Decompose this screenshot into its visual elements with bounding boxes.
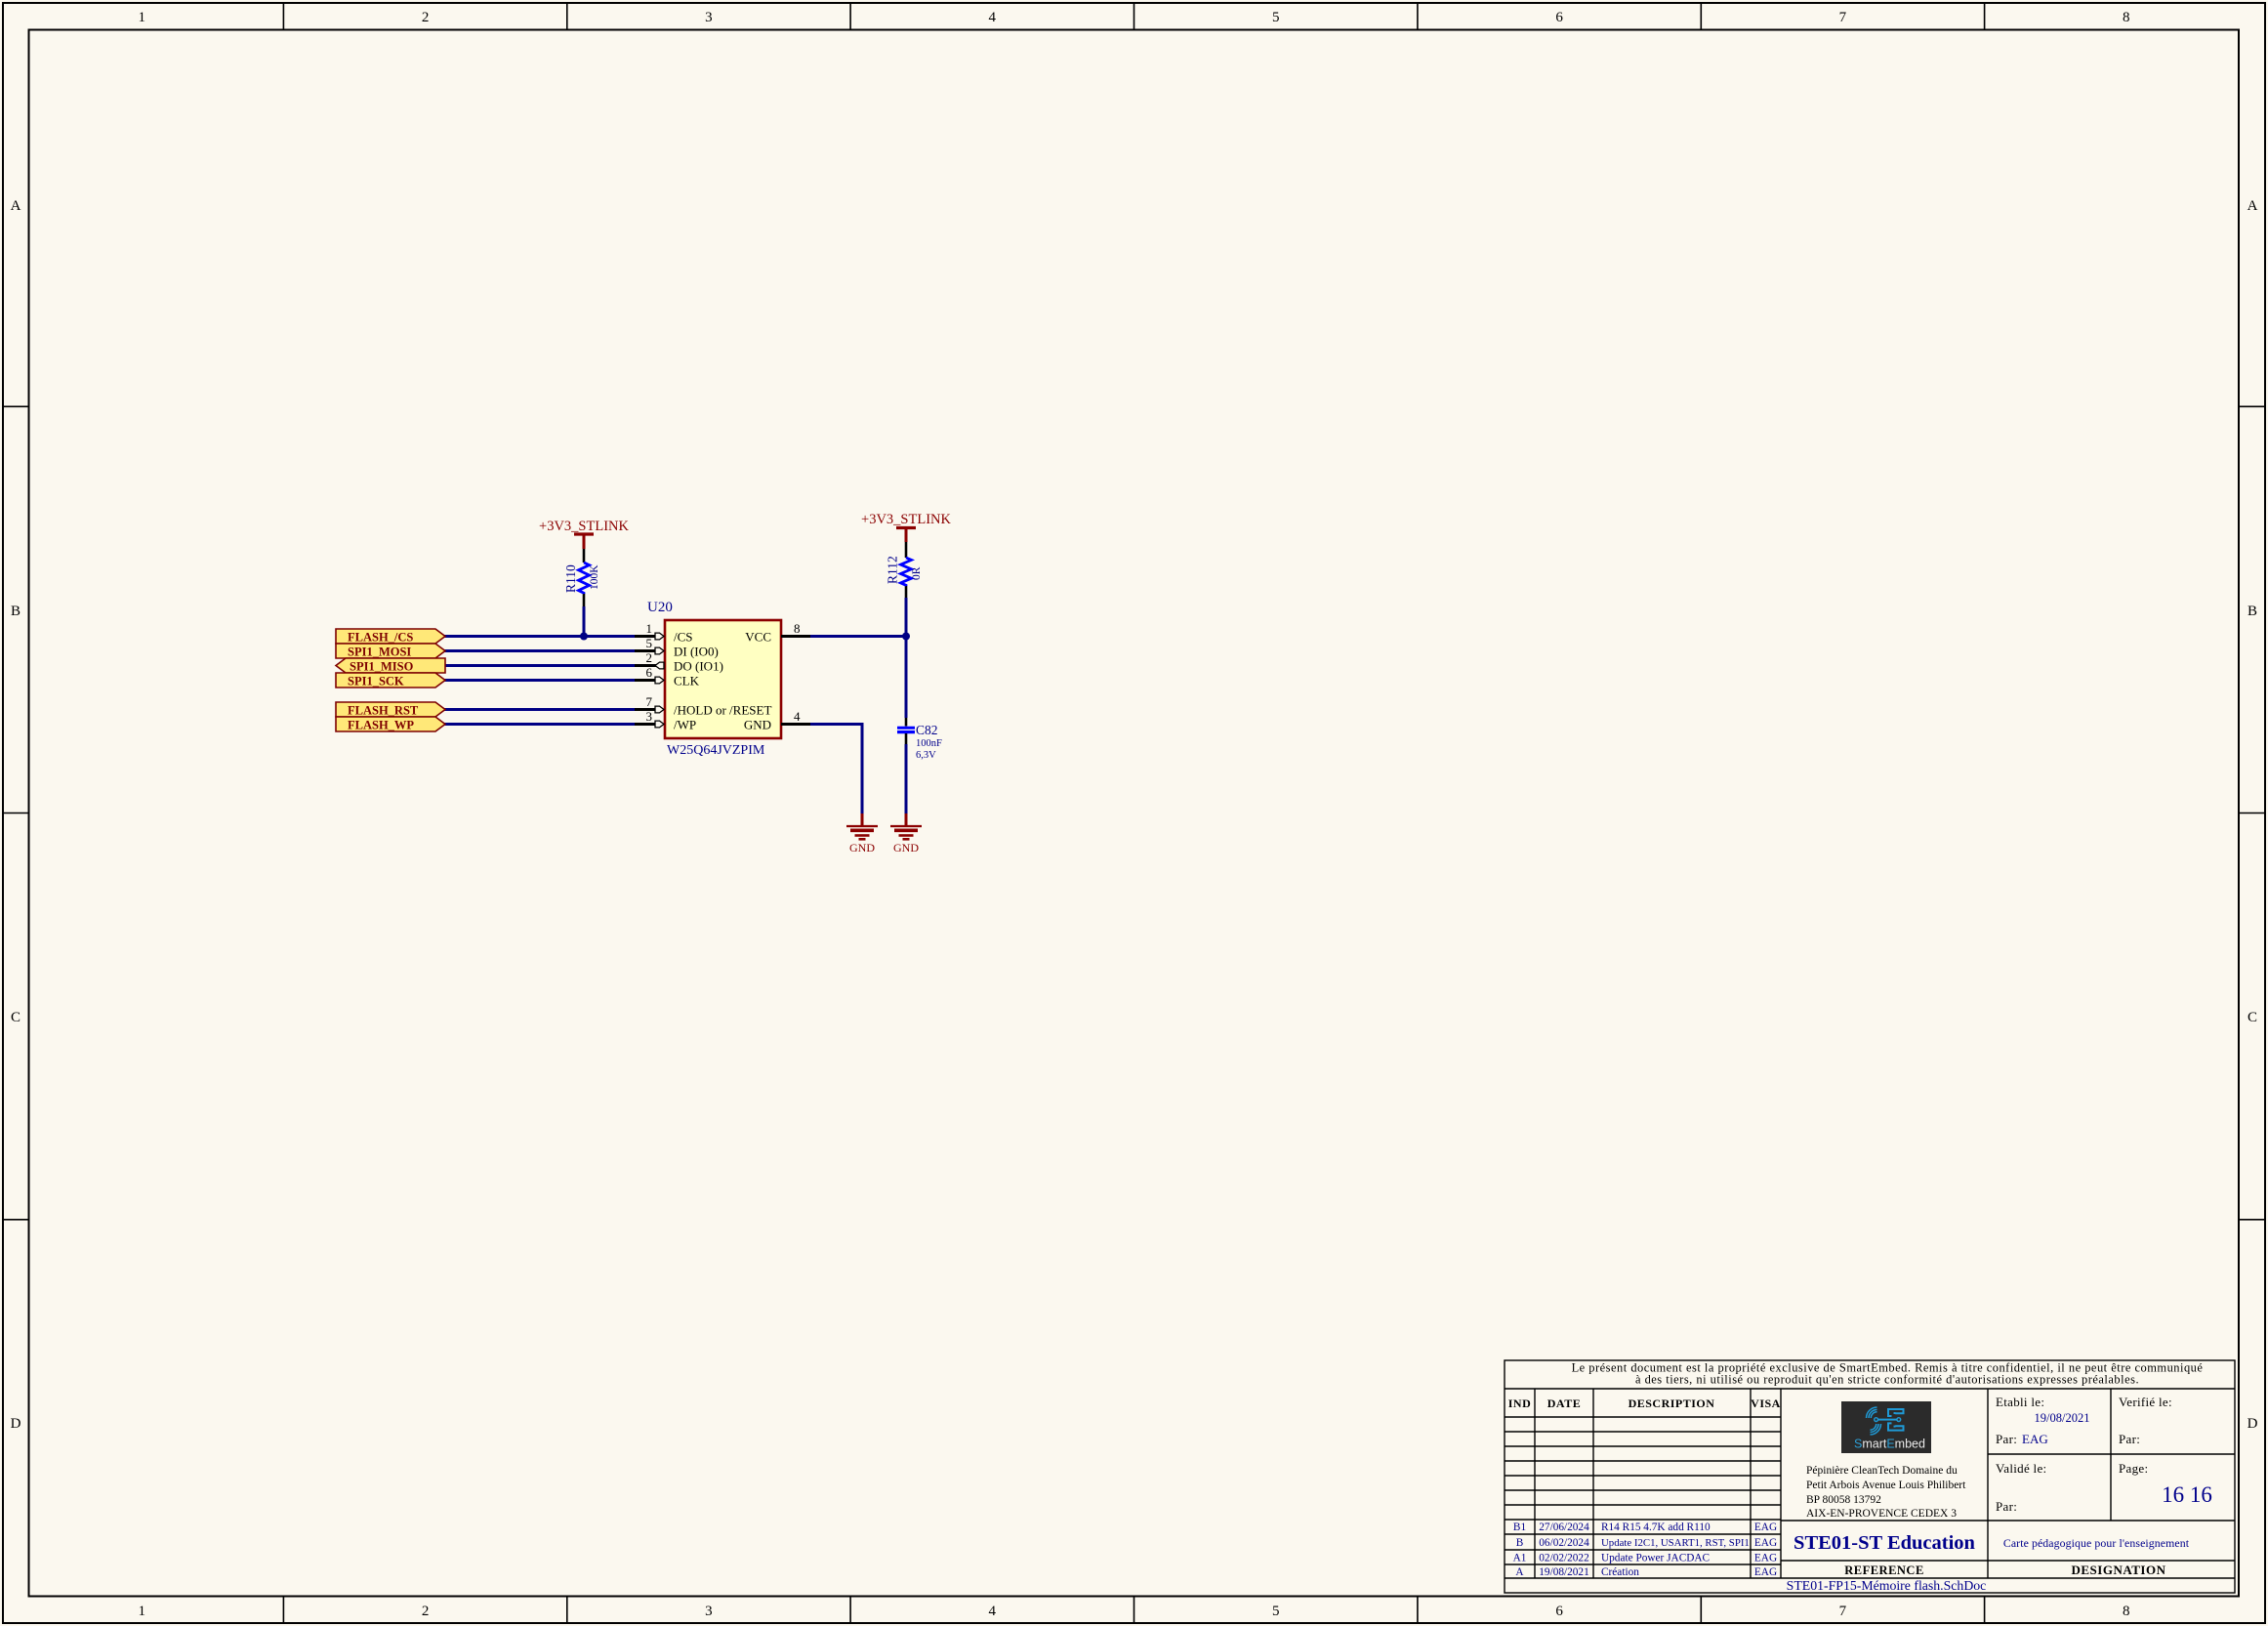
- svg-text:DESIGNATION: DESIGNATION: [2071, 1563, 2165, 1577]
- svg-text:Par:: Par:: [1996, 1432, 2017, 1446]
- svg-text:A: A: [2247, 198, 2258, 214]
- svg-text:/WP: /WP: [674, 718, 696, 732]
- pin 4 GND: [744, 709, 810, 732]
- svg-text:16 16: 16 16: [2162, 1482, 2212, 1507]
- svg-text:5: 5: [1272, 10, 1280, 25]
- pin 8 VCC: [745, 621, 810, 645]
- svg-text:AIX-EN-PROVENCE CEDEX 3: AIX-EN-PROVENCE CEDEX 3: [1806, 1508, 1957, 1520]
- svg-text:STE01-FP15-Mémoire flash.SchDo: STE01-FP15-Mémoire flash.SchDoc: [1787, 1578, 1987, 1593]
- svg-text:Petit Arbois Avenue Louis Phil: Petit Arbois Avenue Louis Philibert: [1806, 1480, 1966, 1491]
- svg-text:CLK: CLK: [674, 674, 700, 688]
- svg-text:3: 3: [705, 1604, 713, 1619]
- svg-text:A1: A1: [1513, 1553, 1527, 1564]
- svg-text:A: A: [1515, 1566, 1524, 1578]
- svg-text:A: A: [11, 198, 21, 214]
- svg-text:U20: U20: [647, 600, 673, 615]
- port SPI1_MISO: [336, 658, 445, 674]
- port FLASH_RST: [336, 702, 445, 718]
- svg-text:SPI1_MOSI: SPI1_MOSI: [348, 646, 411, 659]
- svg-text:FLASH_RST: FLASH_RST: [348, 704, 419, 718]
- junction node FLASH_/CS at R110: [580, 633, 588, 641]
- svg-text:3: 3: [705, 10, 713, 25]
- svg-text:6,3V: 6,3V: [916, 750, 936, 761]
- svg-text:B1: B1: [1513, 1522, 1526, 1533]
- pin 5 DI: [635, 636, 719, 659]
- svg-text:R112: R112: [886, 556, 900, 584]
- svg-text:7: 7: [1839, 10, 1847, 25]
- svg-text:EAG: EAG: [1754, 1566, 1777, 1578]
- capacitor C82: [897, 718, 915, 744]
- svg-text:R110: R110: [563, 564, 578, 593]
- power +3V3_STLINK left: [539, 519, 629, 549]
- svg-text:Update Power JACDAC: Update Power JACDAC: [1601, 1553, 1710, 1564]
- svg-text:SmartEmbed: SmartEmbed: [1831, 1438, 1943, 1451]
- svg-text:19/08/2021: 19/08/2021: [1539, 1566, 1588, 1578]
- svg-text:DATE: DATE: [1547, 1397, 1581, 1410]
- svg-text:0R: 0R: [911, 566, 923, 580]
- wire C82 to ground: [905, 744, 908, 813]
- port SPI1_MOSI: [336, 644, 445, 659]
- junction node VCC at R112: [902, 633, 910, 641]
- svg-text:W25Q64JVZPIM: W25Q64JVZPIM: [667, 743, 765, 758]
- svg-text:B: B: [11, 604, 21, 619]
- svg-text:+3V3_STLINK: +3V3_STLINK: [539, 519, 629, 534]
- svg-text:DESCRIPTION: DESCRIPTION: [1629, 1397, 1715, 1410]
- svg-text:/CS: /CS: [674, 630, 693, 645]
- svg-text:27/06/2024: 27/06/2024: [1539, 1522, 1589, 1533]
- svg-text:C: C: [11, 1010, 21, 1025]
- svg-text:Verifié le:: Verifié le:: [2119, 1395, 2172, 1409]
- svg-text:BP 80058 13792: BP 80058 13792: [1806, 1494, 1881, 1506]
- designator C82: [916, 723, 938, 737]
- svg-text:à des tiers, ni utilisé ou rep: à des tiers, ni utilisé ou reproduit qu'…: [1635, 1373, 2139, 1387]
- svg-text:D: D: [2247, 1416, 2258, 1432]
- pin 3 /WP: [635, 709, 696, 732]
- wire VCC pin8 to R112 branch: [810, 635, 908, 638]
- svg-text:R14 R15 4.7K add R110: R14 R15 4.7K add R110: [1601, 1522, 1711, 1533]
- svg-text:4: 4: [989, 1604, 997, 1619]
- pin 1 /CS: [635, 621, 693, 645]
- svg-text:100nF: 100nF: [916, 738, 942, 749]
- svg-text:Update I2C1, USART1, RST, SPI1: Update I2C1, USART1, RST, SPI1: [1601, 1537, 1750, 1549]
- svg-text:Par:: Par:: [2119, 1432, 2140, 1446]
- port SPI1_SCK: [336, 673, 445, 688]
- svg-text:5: 5: [1272, 1604, 1280, 1619]
- value 6,3V: [916, 750, 936, 761]
- pin 7 /HOLD: [635, 694, 771, 718]
- svg-text:Pépinière CleanTech Domaine du: Pépinière CleanTech Domaine du: [1806, 1465, 1958, 1477]
- svg-text:Page:: Page:: [2119, 1461, 2148, 1476]
- svg-text:GND: GND: [744, 718, 771, 732]
- svg-text:B: B: [2247, 604, 2257, 619]
- svg-text:FLASH_WP: FLASH_WP: [348, 719, 414, 732]
- svg-text:EAG: EAG: [1754, 1553, 1777, 1564]
- svg-text:8: 8: [2123, 10, 2130, 25]
- svg-text:EAG: EAG: [1754, 1522, 1777, 1533]
- svg-text:Etabli le:: Etabli le:: [1996, 1395, 2044, 1409]
- svg-text:Validé le:: Validé le:: [1996, 1461, 2046, 1476]
- designator U20: [647, 600, 673, 615]
- svg-text:EAG: EAG: [1754, 1537, 1777, 1549]
- svg-text:REFERENCE: REFERENCE: [1844, 1563, 1924, 1577]
- svg-text:4: 4: [989, 10, 997, 25]
- svg-text:VCC: VCC: [745, 630, 771, 645]
- value 100nF: [916, 738, 942, 749]
- svg-text:VISA: VISA: [1751, 1397, 1781, 1410]
- svg-text:Création: Création: [1601, 1566, 1639, 1578]
- ground GND right: [890, 813, 922, 855]
- wire net FLASH_RST: [444, 708, 635, 711]
- IC U20 body: [665, 620, 781, 738]
- svg-text:7: 7: [1839, 1604, 1847, 1619]
- wire net FLASH_/CS: [444, 635, 635, 638]
- svg-text:2: 2: [422, 10, 430, 25]
- svg-text:3: 3: [646, 709, 653, 724]
- svg-text:GND: GND: [849, 841, 875, 855]
- value 0R: [911, 566, 923, 580]
- svg-text:IND: IND: [1508, 1397, 1532, 1410]
- svg-text:DO (IO1): DO (IO1): [674, 659, 723, 674]
- resistor R110: [579, 549, 590, 606]
- ground GND left: [846, 813, 878, 855]
- svg-text:DI (IO0): DI (IO0): [674, 645, 719, 659]
- svg-text:Par:: Par:: [1996, 1499, 2017, 1514]
- designator R110: [563, 564, 578, 593]
- wire R112 to VCC node: [905, 598, 908, 637]
- pin 6 CLK: [635, 665, 700, 688]
- svg-text:6: 6: [646, 665, 653, 680]
- wire R110 to net FLASH_/CS: [583, 606, 586, 637]
- svg-text:SPI1_MISO: SPI1_MISO: [350, 660, 414, 674]
- svg-text:Carte pédagogique pour l'ensei: Carte pédagogique pour l'enseignement: [2003, 1536, 2190, 1550]
- pin 2 DO: [635, 650, 723, 674]
- svg-text:1: 1: [138, 1604, 145, 1619]
- wire GND pin4 to ground: [810, 725, 862, 814]
- TITLE BLOCK: [1505, 1360, 2235, 1593]
- svg-text:8: 8: [2123, 1604, 2130, 1619]
- svg-text:+3V3_STLINK: +3V3_STLINK: [861, 512, 951, 527]
- value 100K: [589, 564, 600, 590]
- svg-text:4: 4: [794, 709, 801, 724]
- port FLASH_/CS: [336, 629, 445, 645]
- svg-text:2: 2: [646, 650, 653, 665]
- svg-text:SPI1_SCK: SPI1_SCK: [348, 675, 404, 688]
- svg-text:1: 1: [138, 10, 145, 25]
- svg-text:EAG: EAG: [2022, 1432, 2048, 1446]
- CIRCUIT: [336, 512, 952, 855]
- svg-text:06/02/2024: 06/02/2024: [1539, 1537, 1589, 1549]
- designator R112: [886, 556, 900, 584]
- svg-text:C: C: [2247, 1010, 2257, 1025]
- svg-text:/HOLD or /RESET: /HOLD or /RESET: [674, 703, 771, 718]
- svg-text:2: 2: [422, 1604, 430, 1619]
- svg-text:19/08/2021: 19/08/2021: [2035, 1411, 2090, 1425]
- wire net SPI1_MISO: [444, 664, 635, 667]
- svg-text:STE01-ST Education: STE01-ST Education: [1794, 1532, 1976, 1554]
- power +3V3_STLINK right: [861, 512, 951, 542]
- svg-text:6: 6: [1555, 1604, 1563, 1619]
- wire net FLASH_WP: [444, 723, 635, 726]
- svg-text:6: 6: [1555, 10, 1563, 25]
- svg-text:02/02/2022: 02/02/2022: [1539, 1553, 1589, 1564]
- resistor R112: [901, 542, 912, 598]
- svg-text:D: D: [11, 1416, 21, 1432]
- svg-text:B: B: [1516, 1537, 1524, 1549]
- wire VCC node to capacitor C82: [905, 637, 908, 719]
- port FLASH_WP: [336, 717, 445, 732]
- svg-text:7: 7: [646, 694, 653, 709]
- svg-text:FLASH_/CS: FLASH_/CS: [348, 631, 413, 645]
- svg-text:C82: C82: [916, 723, 938, 737]
- wire net SPI1_MOSI: [444, 649, 635, 652]
- wire net SPI1_SCK: [444, 679, 635, 682]
- svg-text:GND: GND: [893, 841, 919, 855]
- svg-text:1: 1: [646, 621, 653, 636]
- svg-text:100K: 100K: [589, 564, 600, 590]
- svg-text:5: 5: [646, 636, 653, 650]
- value W25Q64JVZPIM: [667, 743, 765, 758]
- logo SmartEmbed: [1831, 1401, 1943, 1453]
- svg-text:8: 8: [794, 621, 801, 636]
